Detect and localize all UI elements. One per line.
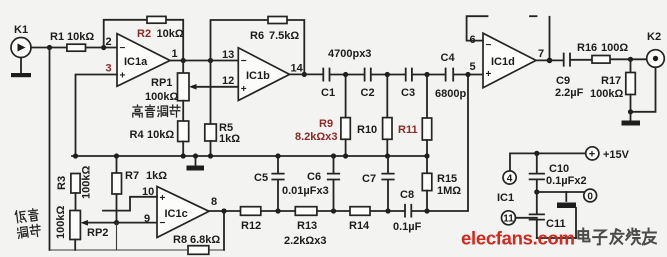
- svg-text:+: +: [589, 149, 595, 161]
- node IC1a output: [181, 58, 186, 63]
- potentiometer RP2: [55, 206, 108, 250]
- svg-text:R6: R6: [250, 30, 264, 42]
- op-amp IC1c: [142, 186, 217, 238]
- svg-text:11: 11: [503, 214, 514, 225]
- svg-text:8: 8: [211, 196, 217, 208]
- svg-text:R12: R12: [241, 220, 261, 232]
- node bus C5: [275, 153, 280, 158]
- resistor R10: [357, 75, 392, 157]
- svg-text:2.2µF: 2.2µF: [555, 87, 584, 99]
- svg-text:IC1d: IC1d: [491, 56, 515, 68]
- resistor R5: [205, 61, 240, 157]
- svg-text:2: 2: [106, 36, 112, 48]
- node IC1d output: [547, 58, 553, 64]
- capacitor C7: [362, 156, 394, 211]
- svg-text:100Ω: 100Ω: [601, 42, 628, 54]
- capacitor C11: [530, 192, 566, 238]
- svg-text:4: 4: [507, 173, 513, 184]
- wire input junction down to bottom rail: [49, 48, 51, 251]
- svg-text:R13: R13: [297, 220, 317, 232]
- watermark Chinese characters: [578, 229, 655, 245]
- node bus R3: [73, 153, 78, 158]
- terminal IC1 pin11: [502, 211, 516, 225]
- svg-text:R7: R7: [125, 170, 139, 182]
- svg-text:9: 9: [144, 213, 150, 225]
- svg-text:1: 1: [172, 48, 178, 60]
- resistor R15: [422, 156, 461, 211]
- svg-text:R16: R16: [577, 42, 597, 54]
- svg-text:RP2: RP2: [87, 227, 108, 239]
- svg-text:R11: R11: [398, 124, 418, 136]
- resistor R9: [295, 75, 350, 157]
- node bus R9: [343, 153, 348, 158]
- node pin2: [101, 45, 106, 50]
- svg-text:7.5kΩ: 7.5kΩ: [269, 30, 299, 42]
- node bus R11-R15: [424, 153, 429, 158]
- svg-text:1MΩ: 1MΩ: [437, 185, 461, 197]
- svg-text:C8: C8: [400, 189, 414, 201]
- svg-text:10kΩ: 10kΩ: [67, 31, 94, 43]
- svg-text:1kΩ: 1kΩ: [146, 170, 167, 182]
- node power C10: [534, 151, 539, 156]
- node IC1d pin5: [465, 72, 470, 77]
- wire IC1d feedback loop: [467, 16, 488, 40]
- svg-text:IC1b: IC1b: [246, 70, 270, 82]
- wire IC1a pin3 from bus: [76, 75, 118, 157]
- svg-text:R14: R14: [349, 220, 370, 232]
- svg-text:elecfans.com: elecfans.com: [461, 228, 575, 249]
- resistor R14: [349, 207, 370, 232]
- svg-text:C9: C9: [556, 75, 570, 87]
- wire IC1a feedback loop: [104, 20, 184, 61]
- resistor R11: [398, 75, 432, 157]
- terminal IC1 pin4: [503, 171, 516, 184]
- terminal +15V: [586, 147, 630, 161]
- resistor R4: [130, 101, 189, 156]
- node pin9 junction: [114, 220, 119, 225]
- resistor R17: [590, 59, 635, 112]
- svg-text:+: +: [486, 69, 492, 80]
- label bass adjust (Chinese): [15, 208, 41, 239]
- node bus R10-C7: [385, 153, 390, 158]
- svg-text:0.1µF: 0.1µF: [393, 221, 422, 233]
- node C1-C2: [343, 72, 348, 77]
- power rail wire: [510, 153, 586, 170]
- svg-text:0: 0: [587, 191, 593, 202]
- svg-text:R17: R17: [601, 75, 621, 87]
- svg-text:C6: C6: [307, 171, 321, 183]
- svg-text:0.01µFx3: 0.01µFx3: [282, 185, 329, 197]
- svg-text:C4: C4: [441, 52, 456, 64]
- wire IC1c feedback down: [223, 211, 225, 250]
- wire C11 bottom: [537, 237, 576, 239]
- node IC1b output: [302, 72, 307, 77]
- svg-text:10kΩ: 10kΩ: [147, 129, 174, 141]
- wire feedback bold vertical: [549, 17, 551, 61]
- wire stub up from bottom: [575, 208, 577, 238]
- svg-text:K1: K1: [14, 24, 28, 36]
- svg-text:IC1: IC1: [497, 192, 514, 204]
- ground below K1: [11, 58, 31, 78]
- op-amp IC1a: [106, 34, 178, 87]
- wire feedback right segment: [530, 15, 537, 17]
- capacitor C1: [321, 69, 335, 100]
- wire cap chain row: [290, 73, 484, 75]
- node bus C6: [331, 153, 336, 158]
- svg-text:C2: C2: [361, 87, 375, 99]
- node C2-C3: [385, 72, 390, 77]
- svg-text:10kΩ: 10kΩ: [157, 28, 184, 40]
- connector K1: [11, 24, 31, 58]
- svg-text:100kΩ: 100kΩ: [81, 166, 93, 199]
- svg-text:14: 14: [291, 63, 304, 75]
- svg-text:4700px3: 4700px3: [328, 48, 371, 60]
- op-amp IC1b: [222, 48, 304, 101]
- svg-text:C1: C1: [321, 87, 335, 99]
- svg-text:−: −: [160, 218, 166, 229]
- wire K2 shield to R17: [631, 67, 656, 112]
- potentiometer RP1: [145, 61, 238, 104]
- capacitor C5: [254, 156, 284, 211]
- svg-text:C5: C5: [254, 172, 268, 184]
- svg-text:5: 5: [470, 61, 476, 73]
- svg-text:R9: R9: [319, 118, 333, 130]
- svg-text:RP1: RP1: [151, 77, 172, 89]
- svg-text:3: 3: [106, 63, 112, 75]
- node bus R5: [208, 153, 213, 158]
- wire IC1c pin10 stub: [103, 197, 157, 211]
- capacitor C2: [361, 69, 375, 100]
- node IC1c output: [221, 208, 226, 213]
- svg-text:100kΩ: 100kΩ: [55, 206, 67, 239]
- resistor R1: [50, 31, 94, 51]
- node row C6: [331, 208, 336, 213]
- node bus R7: [114, 153, 119, 158]
- resistor R7: [112, 156, 167, 223]
- resistor R16: [577, 42, 628, 63]
- svg-text:IC1a: IC1a: [124, 56, 148, 68]
- node C3-C4: [424, 72, 429, 77]
- svg-text:100kΩ: 100kΩ: [145, 91, 178, 103]
- svg-text:−: −: [241, 56, 247, 67]
- svg-text:6800p: 6800p: [435, 88, 466, 100]
- svg-text:−: −: [486, 40, 492, 51]
- wire mid to 0 terminal: [537, 191, 584, 193]
- capacitor C3: [401, 69, 415, 100]
- ground on bus: [187, 156, 205, 171]
- svg-text:+15V: +15V: [603, 149, 630, 161]
- wire RP2 wiper to IC1c pin9: [88, 222, 158, 224]
- svg-text:IC1c: IC1c: [165, 208, 188, 220]
- bottom rail wire: [50, 249, 225, 251]
- node row C5: [275, 208, 280, 213]
- svg-text:0.1µFx2: 0.1µFx2: [546, 175, 587, 187]
- svg-text:1kΩ: 1kΩ: [219, 133, 240, 145]
- wire IC1b feedback loop: [211, 20, 305, 74]
- capacitor C6: [282, 156, 339, 211]
- wire IC1d output: [536, 59, 647, 60]
- svg-text:R8: R8: [173, 234, 187, 246]
- resistor R12: [241, 207, 262, 232]
- wire IC1a output to IC1b pin13: [170, 60, 238, 62]
- node input junction: [47, 45, 52, 50]
- node row R15: [424, 208, 429, 213]
- capacitor C4: [435, 52, 466, 100]
- ground bus wire: [72, 155, 427, 157]
- resistor R13: [284, 207, 326, 247]
- resistor R2: [137, 16, 184, 40]
- svg-text:C3: C3: [401, 87, 415, 99]
- svg-text:R4: R4: [130, 129, 145, 141]
- op-amp IC1d: [470, 33, 545, 87]
- wire pin11 to C11 column: [516, 217, 537, 219]
- node ground K2: [628, 109, 633, 114]
- svg-text:100kΩ: 100kΩ: [590, 88, 623, 100]
- svg-text:C10: C10: [549, 163, 569, 175]
- node row C7: [385, 208, 390, 213]
- capacitor C10: [530, 153, 587, 192]
- svg-text:−: −: [120, 43, 126, 54]
- svg-text:R10: R10: [357, 124, 377, 136]
- svg-text:2.2kΩx3: 2.2kΩx3: [284, 235, 326, 247]
- node C10 bottom: [534, 189, 539, 194]
- resistor R6: [250, 17, 299, 43]
- node bus R4: [181, 153, 186, 158]
- wire input node to IC1a pin2: [31, 47, 117, 49]
- svg-text:6.8kΩ: 6.8kΩ: [190, 234, 220, 246]
- svg-text:+: +: [241, 84, 247, 95]
- resistor R8: [173, 234, 220, 254]
- svg-text:C7: C7: [362, 173, 376, 185]
- terminal 0V: [584, 189, 597, 202]
- node R16-R17: [628, 57, 633, 62]
- svg-text:8.2kΩx3: 8.2kΩx3: [295, 131, 337, 143]
- svg-text:7: 7: [538, 48, 544, 60]
- svg-text:R3: R3: [56, 176, 68, 190]
- connector K2: [647, 31, 665, 67]
- ground mid: [557, 192, 576, 208]
- svg-text:K2: K2: [647, 31, 661, 43]
- capacitor C9: [555, 54, 584, 100]
- svg-text:R15: R15: [437, 173, 457, 185]
- wire IC1c output row: [209, 75, 468, 212]
- svg-text:12: 12: [222, 75, 234, 87]
- resistor R3: [56, 166, 93, 211]
- svg-text:13: 13: [222, 49, 234, 61]
- label treble adjust (Chinese): [133, 105, 180, 117]
- node pin13 junction: [208, 58, 213, 63]
- svg-text:R1: R1: [50, 31, 64, 43]
- node bus ground: [193, 153, 198, 158]
- capacitor C8: [393, 189, 422, 233]
- ground under R17: [622, 112, 641, 126]
- wire R7 junction down to bottom rail: [116, 223, 118, 250]
- svg-text:+: +: [120, 71, 126, 82]
- svg-text:R2: R2: [137, 28, 151, 40]
- svg-text:+: +: [160, 193, 166, 204]
